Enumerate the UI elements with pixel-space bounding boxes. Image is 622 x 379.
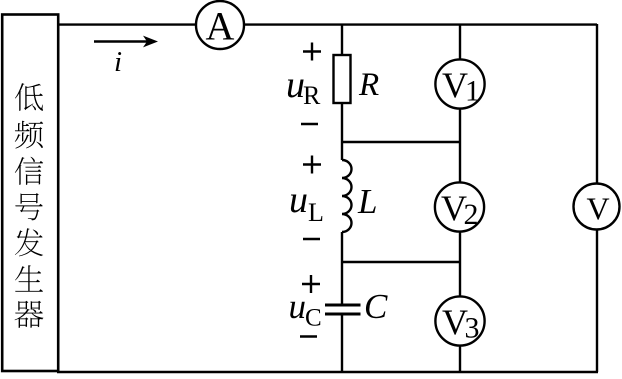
wire node A junction (R-L) (341, 141, 461, 143)
generator label char 发 (15, 228, 43, 256)
wire middle branch upper (top wire to resistor) (341, 24, 343, 56)
generator label char 生 (15, 265, 43, 291)
generator label char 器 (15, 301, 44, 328)
generator label char 号 (15, 193, 42, 220)
resistor R (334, 55, 351, 103)
svg-text:2: 2 (464, 198, 479, 231)
voltmeter V1 (435, 59, 484, 108)
svg-text:L: L (357, 182, 377, 221)
wire top (57, 23, 597, 25)
wire node B junction (L-C) (341, 261, 461, 263)
polarity - of uL (303, 238, 320, 240)
capacitor C (325, 304, 361, 307)
generator label char 频 (15, 121, 43, 149)
svg-text:L: L (308, 198, 324, 227)
inductor L (342, 160, 352, 232)
svg-text:C: C (305, 305, 322, 332)
wire capacitor to bottom wire (341, 314, 343, 372)
wire resistor to node A (341, 102, 343, 160)
svg-text:1: 1 (465, 75, 480, 108)
wire bottom (57, 371, 598, 373)
wire right (596, 24, 598, 372)
current arrow i (94, 40, 147, 42)
wire voltmeter branch (459, 24, 461, 372)
voltmeter V3 (435, 296, 484, 345)
polarity + of uL (303, 156, 321, 174)
polarity + of uR (303, 43, 321, 61)
ammeter A1 (196, 1, 244, 49)
voltmeter V2 (435, 182, 484, 231)
svg-text:A: A (206, 4, 235, 49)
svg-text:i: i (114, 46, 122, 78)
generator label char 信 (15, 157, 43, 185)
voltmeter V (total) (574, 184, 620, 230)
polarity - of uC (300, 335, 317, 337)
polarity - of uR (301, 123, 318, 125)
wire inductor to node B (341, 232, 343, 305)
svg-text:u: u (289, 287, 307, 326)
generator label char 低 (15, 83, 43, 111)
signal generator box 低频信号发生器 (2, 15, 58, 372)
svg-text:R: R (358, 67, 379, 103)
polarity + of uC (302, 275, 320, 293)
svg-text:C: C (364, 287, 388, 326)
svg-text:R: R (303, 81, 321, 110)
svg-text:u: u (289, 179, 308, 221)
svg-text:V: V (586, 191, 609, 227)
svg-text:3: 3 (465, 312, 480, 345)
